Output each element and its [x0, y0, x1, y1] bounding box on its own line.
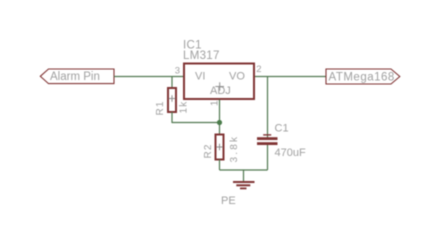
svg-text:R1: R1: [155, 100, 166, 115]
origin cross of IC1: [215, 82, 224, 90]
name label C1: [275, 123, 289, 135]
wire from R1 bottom to corner: [171, 112, 173, 123]
wire stem to ground: [243, 170, 245, 181]
net flag Alarm Pin: [40, 69, 114, 84]
net flag ATMega168: [326, 69, 400, 84]
wire from IC1 pin 2 to ATMega168 flag: [255, 76, 326, 78]
ground PE symbol: [233, 181, 255, 189]
svg-text:Alarm Pin: Alarm Pin: [50, 71, 100, 83]
wire from corner to junction: [172, 122, 220, 124]
value label LM317: [183, 50, 220, 62]
svg-text:C1: C1: [275, 123, 289, 135]
svg-text:470uF: 470uF: [275, 147, 306, 159]
origin cross of R1: [169, 95, 176, 102]
capacitor C1 body: [257, 134, 278, 145]
name label R2 (rotated): [203, 143, 214, 158]
pin number 3: [175, 66, 180, 77]
wire from C1 bottom to bottom net: [267, 145, 269, 170]
svg-text:VI: VI: [195, 71, 205, 83]
pin number 2: [256, 64, 261, 75]
junction dot: [217, 120, 222, 125]
resistor R2 body: [216, 135, 224, 160]
svg-text:VO: VO: [229, 71, 245, 83]
wire from junction to R2 top: [219, 123, 221, 135]
value label 1k (rotated): [179, 101, 190, 114]
svg-text:1k: 1k: [179, 101, 190, 114]
op-amp U1 label IC1: [183, 40, 202, 52]
pin number 1 (ADJ, rotated): [210, 100, 221, 106]
regulator IC1 LM317 body: [184, 64, 254, 100]
bottom wire from R2 to C1: [220, 169, 268, 171]
svg-text:R2: R2: [203, 143, 214, 158]
svg-text:3: 3: [175, 66, 180, 77]
wire from ADJ pin down to junction: [219, 100, 221, 123]
svg-text:ATMega168: ATMega168: [329, 72, 395, 84]
name label R1 (rotated): [155, 100, 166, 115]
origin cross of R2: [216, 144, 223, 151]
value label 470uF: [275, 147, 306, 159]
wire from net down to C1 top: [267, 77, 269, 138]
svg-text:PE: PE: [221, 195, 236, 207]
svg-text:1: 1: [210, 100, 221, 106]
value label 3.8k (rotated): [229, 135, 240, 163]
svg-text:3.8k: 3.8k: [229, 135, 240, 163]
svg-text:LM317: LM317: [183, 50, 220, 62]
resistor R1 body: [168, 88, 176, 112]
wire from main net down to R1: [171, 77, 173, 89]
svg-text:2: 2: [256, 64, 261, 75]
ground label PE: [221, 195, 236, 207]
wire from R2 bottom down: [219, 160, 221, 171]
wire from Alarm Pin flag to IC1 pin 3: [114, 76, 183, 78]
